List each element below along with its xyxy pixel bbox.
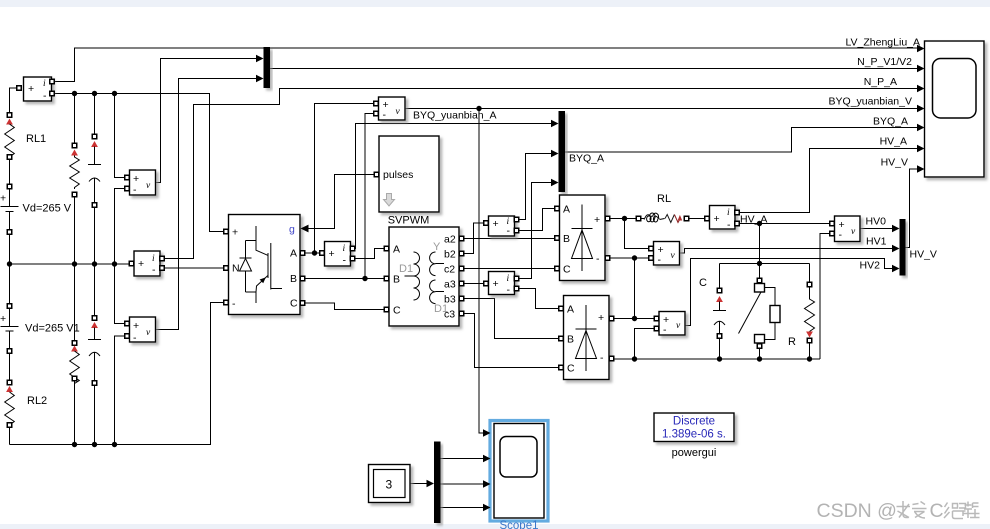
svg-text:D1: D1 [399,263,413,275]
svg-text:-: - [133,184,137,196]
voltage measurement v_half1 [125,170,156,196]
svg-text:i: i [343,244,346,254]
svg-text:+: + [232,227,238,239]
wire i_A output to BYQ mux in1 [353,124,552,249]
wire demux out3 to Scope1 [441,507,484,509]
voltage measurement v_load [654,312,685,337]
wire i_N minus to IGBT N [164,267,224,269]
svg-text:N_P_V1/V2: N_P_V1/V2 [857,56,912,68]
wire i_hv minus HV_A to v_hv plus [737,223,830,225]
wire col3 top capacitor drop [94,94,96,265]
wire b2 to i_b2 plus [464,223,484,254]
wire load R drop [809,264,811,360]
svg-text:HV2: HV2 [860,260,881,272]
three-winding transformer T1 [384,227,463,326]
series RL branch [636,213,688,222]
svg-text:C: C [393,305,401,317]
wire battery2 column from mid bus [9,264,11,445]
mux BYQ_A bar [551,111,565,192]
svg-text:i: i [727,208,730,218]
wire c3 to bridge2 C [464,314,559,368]
svg-text:A: A [393,244,400,256]
diode bridge rectifier 1 [555,195,610,281]
label HV0 [866,216,887,228]
svg-text:i: i [507,274,510,284]
wire a3 to i_a3 plus [464,283,484,285]
svg-text:SVPWM: SVPWM [388,215,430,227]
svg-text:+: + [493,278,499,290]
label BYQ_yuanbian_A wire label [413,110,496,122]
svg-text:BYQ_yuanbian_A: BYQ_yuanbian_A [413,110,496,122]
svg-text:B: B [567,334,574,346]
svg-text:+: + [133,320,139,332]
svg-text:D1: D1 [434,303,448,315]
svg-text:+: + [493,218,499,230]
wire v_half2 minus to bottom bus [115,336,125,445]
svg-text:-: - [507,284,511,296]
label LV_ZhengLiu_A [845,37,920,49]
label BYQ_yuanbian_V [829,96,912,108]
svg-text:BYQ_yuanbian_V: BYQ_yuanbian_V [829,96,912,108]
label R load [788,336,796,348]
svg-text:N: N [232,263,240,275]
resistor R parallel top cell [70,143,80,196]
resistor RL1 [5,113,15,159]
svg-text:Y: Y [433,241,441,253]
svg-text:C: C [290,298,298,310]
wire v_load output HV2 row to HV mux [685,259,893,326]
svg-text:-: - [383,109,387,121]
SVPWM block [374,136,439,212]
svg-text:+: + [329,248,335,260]
wire HV_A node down to load top rail [759,224,761,264]
svg-text:HV1: HV1 [866,236,887,248]
wire col3 bottom capacitor drop [94,264,96,445]
wire breaker drop [759,264,761,360]
svg-text:+: + [0,193,6,205]
svg-text:+: + [598,312,604,324]
label BYQ_A wire label [569,153,604,165]
svg-text:BYQ_A: BYQ_A [873,116,908,128]
wire bridge2 plus to v_load plus [614,318,654,320]
wire bridge1 minus down to bridge2 plus [634,258,636,319]
wire a2 to bridge1 B [464,238,555,240]
wire v_hv minus down right side to rail [820,234,830,360]
powergui block [654,413,734,442]
wire v_hv output HV0 to HV mux [860,228,893,230]
mux HV bar [892,219,906,276]
svg-text:Discrete: Discrete [673,416,715,428]
wire BYQ junction down to Scope1 input [479,109,483,434]
svg-text:Scope1: Scope1 [499,520,538,529]
svg-text:C: C [567,363,575,375]
current measurement i1 top-left [17,77,54,102]
wire i1 plus to RL1 [10,88,20,112]
svg-text:-: - [600,352,604,364]
wire LV_ZhengLiu_A row from i1 to Scope [52,48,917,82]
svg-text:LV_ZhengLiu_A: LV_ZhengLiu_A [845,37,920,49]
current measurement i_A [320,242,355,267]
wire top DC bus from i1 minus to IGBT plus [52,94,224,232]
svg-text:RL1: RL1 [26,133,46,145]
Scope block top-right [917,41,984,177]
label RL1 [26,133,46,145]
label HV_V scope input [881,157,908,169]
wire v_primary minus tap to phase B [365,114,374,279]
voltage measurement v_primary [374,97,405,121]
wire v_half2 plus to mid bus [115,264,125,324]
label Scope1 [499,520,538,529]
constant block 3 [369,465,411,503]
svg-text:1.389e-06 s.: 1.389e-06 s. [662,429,726,441]
svg-text:c2: c2 [444,264,455,276]
wire HV mux output HV_V to Scope [906,169,918,248]
svg-text:-: - [343,255,347,267]
wire IGBT B to transformer B [304,278,384,280]
breaker switch [739,278,781,348]
current measurement i_a3 [484,272,519,297]
current measurement i_N [129,251,164,276]
wire demux out1 to Scope1 [441,458,484,460]
label SVPWM [388,215,430,227]
svg-text:HV_V: HV_V [910,249,937,261]
svg-text:b2: b2 [444,249,456,261]
label powergui [672,447,717,459]
wire c2 to bridge1 C [464,268,555,270]
svg-text:A: A [563,204,570,216]
svg-text:i: i [152,254,155,264]
wire i_A minus to transformer A [353,249,384,259]
svg-text:R: R [788,336,796,348]
svg-text:g: g [289,224,295,236]
diode bridge rectifier 2 [559,296,614,380]
wire IGBT C to transformer C [304,303,384,310]
svg-text:HV_A: HV_A [880,136,907,148]
wire BYQ_A mux output to Scope [565,128,917,153]
svg-text:C: C [563,264,571,276]
svg-text:B: B [290,273,297,285]
svg-text:HV0: HV0 [866,216,887,228]
svg-text:Vd=265 V: Vd=265 V [23,203,72,215]
capacitor C parallel top cell [88,134,101,207]
voltage measurement v_bridge [649,242,680,267]
resistor RL2 [5,380,15,427]
svg-text:B: B [563,233,570,245]
wire v_half1 minus to mid bus [115,189,125,265]
svg-text:-: - [152,264,156,276]
capacitor C parallel bottom cell [88,316,101,385]
wire bottom bus to IGBT minus [10,303,225,445]
wire v_half2 output to mux N_P arrow2 [156,79,257,330]
svg-text:-: - [507,225,511,237]
svg-text:+: + [28,83,34,95]
wire load top rail [720,263,810,265]
svg-text:HV_V: HV_V [881,157,908,169]
label HV_V mux output [910,249,937,261]
wire b3 to bridge2 B [464,299,559,339]
wire SVPWM pulses to IGBT g [308,175,374,229]
svg-text:-: - [596,253,600,265]
wire i_hv output to Scope HV_A row [737,149,917,213]
wire IGBT A to i_A with tap [304,252,322,254]
label RL2 [27,395,47,407]
svg-text:N_P_A: N_P_A [864,76,897,88]
wire bridge1 plus to RL branch [610,218,638,220]
wire RL1 to Vd battery [9,159,11,185]
wire N link top to v_half1 plus [115,94,125,178]
wire i_a3 minus to bridge2 A [517,289,559,309]
wire col2 bottom resistor drop [74,264,76,445]
svg-text:BYQ_A: BYQ_A [569,153,604,165]
svg-text:-: - [232,298,236,310]
svg-text:Vd=265 V1: Vd=265 V1 [25,323,80,335]
svg-text:-: - [663,324,667,336]
svg-text:RL: RL [657,193,671,205]
label HV1 [866,236,887,248]
svg-text:HV_A: HV_A [740,214,767,226]
svg-text:C: C [699,277,707,289]
label RL [657,193,671,205]
svg-text:B: B [393,274,400,286]
wire v_primary plus tap to phase A [315,104,374,254]
watermark CSDN [817,500,980,522]
wire mid bus N [10,263,130,265]
label C load [699,277,707,289]
wire i_a3 output to BYQ mux in3 [517,183,552,279]
svg-text:pulses: pulses [383,169,413,181]
DC source Vd=265 V [0,184,19,234]
wire v_bridge output HV1 row to HV mux [680,249,893,254]
svg-text:C: C [930,500,944,522]
wire bottom load rail from bridge2 minus [614,358,820,360]
svg-text:+: + [0,313,6,325]
label Vd=265 V1 [25,323,80,335]
wire v_half1 output to mux N_P arrow1 [156,59,257,183]
IGBT inverter block U1 [224,215,309,315]
mux N_P (left bus bar) [256,47,270,88]
load resistor R [805,282,815,342]
wire demux out2 to Scope1 [441,483,484,485]
label Vd=265 V [23,203,72,215]
wire v_load minus down to rail [635,329,655,360]
svg-text:-: - [43,90,47,102]
label N_P_A [864,76,897,88]
wire BYQ_yuanbian_V row to Scope [405,108,917,110]
resistor R parallel bottom cell [70,341,80,384]
DC source Vd=265 V1 [0,304,19,353]
svg-text:A: A [290,248,297,260]
wire i_b2 minus to bridge1 A [517,209,555,231]
current measurement i_b2 [484,216,519,237]
label HV2 [860,260,881,272]
wire Vd battery to mid bus [9,234,11,264]
Scope1 block selected [483,421,548,522]
wire load cap drop [719,264,721,360]
label HV_A wire label [740,214,767,226]
voltage measurement v_hv [830,216,860,242]
wire constant3 to demux [411,483,427,485]
svg-text:3: 3 [386,478,393,492]
label HV_A scope input [880,136,907,148]
svg-text:+: + [714,213,720,225]
wire N_P_V1/V2 row mux output to Scope [270,68,917,70]
wire i_N current output N_P_A row to Scope [164,89,917,259]
svg-text:CSDN @: CSDN @ [817,500,897,522]
wire tap bridge1 plus down to v_bridge plus [625,219,649,249]
wire bridge1 minus to v_bridge minus [610,257,649,259]
svg-text:A: A [567,304,574,316]
svg-text:-: - [839,229,843,241]
demux bar Scope1 [427,442,441,524]
load capacitor C [713,288,726,338]
wire i_b2 output to BYQ mux in2 [517,154,552,220]
wire col2 top resistor drop [74,94,76,265]
svg-text:-: - [658,254,662,266]
svg-text:i: i [43,79,46,89]
svg-text:+: + [594,214,600,226]
svg-text:a3: a3 [444,279,456,291]
svg-text:-: - [727,219,731,231]
svg-text:+: + [138,258,144,270]
svg-text:powergui: powergui [672,447,717,459]
svg-text:a2: a2 [444,234,456,246]
label BYQ_A scope input [873,116,908,128]
wire RL branch to i_hv plus [689,218,705,220]
voltage measurement v_half2 [125,317,156,344]
current measurement i_hv [705,206,739,232]
label N_P_V1/V2 [857,56,912,68]
svg-text:RL2: RL2 [27,395,47,407]
svg-text:-: - [133,332,137,344]
